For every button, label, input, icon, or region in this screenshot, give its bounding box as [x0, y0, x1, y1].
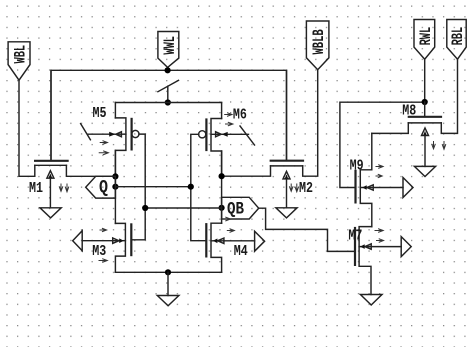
port RBL	[447, 20, 467, 60]
node QB junction	[219, 205, 225, 211]
wire WBLB to M2 source	[303, 70, 318, 177]
value annotation M7	[375, 229, 384, 242]
wire Q row	[115, 186, 190, 188]
port arrow M7 bulk	[401, 237, 411, 257]
wire RWL down	[424, 59, 426, 102]
transistor M8 (NMOS read access)	[372, 102, 442, 166]
wire VDD rail	[115, 102, 221, 104]
port QB flag	[222, 197, 259, 219]
svg-text:M3: M3	[92, 243, 106, 260]
transistor M9 (NMOS read stack)	[356, 133, 404, 226]
port arrow M4 bulk	[255, 231, 265, 251]
wire QB to M7 gate	[259, 208, 355, 251]
value annotation M6	[225, 113, 233, 126]
svg-text:M4: M4	[234, 243, 248, 260]
port arrow M9 bulk	[403, 178, 413, 198]
svg-text:QB: QB	[227, 200, 244, 220]
value annotation M2	[290, 184, 299, 192]
wire WBL to M1 source	[19, 80, 35, 176]
wire QB row	[145, 207, 221, 209]
svg-text:M6: M6	[233, 107, 247, 124]
svg-text:M8: M8	[402, 103, 416, 120]
node VDD junction	[165, 99, 171, 105]
wire M6 gate to Q/M4	[191, 134, 207, 240]
port WWL	[158, 32, 179, 68]
ground at M8 bulk	[414, 166, 435, 176]
wire QB column	[221, 151, 223, 223]
wire WWL rail	[51, 70, 287, 161]
node WWL junction	[165, 67, 171, 73]
value annotation M5	[99, 141, 108, 155]
node RWL junction	[422, 99, 428, 105]
transistor M5 (PMOS)	[81, 103, 139, 177]
svg-text:M9: M9	[350, 157, 364, 174]
node VSS junction	[165, 269, 171, 275]
node QB-M5gate junction	[142, 205, 148, 211]
value annotation M4	[222, 217, 234, 232]
node M2 drain junction	[219, 173, 225, 179]
ground at M1 bulk	[40, 208, 61, 218]
svg-text:WBLB: WBLB	[310, 29, 328, 54]
svg-text:M5: M5	[93, 105, 107, 122]
svg-text:M7: M7	[348, 228, 362, 245]
svg-text:WBL: WBL	[12, 45, 30, 64]
port WBLB	[306, 21, 329, 70]
svg-text:Q: Q	[99, 178, 108, 198]
node M1 drain junction	[112, 173, 118, 179]
wire VDD stub with slash	[158, 80, 179, 102]
port Q flag	[86, 176, 116, 198]
wire RBL down to M8	[441, 59, 457, 133]
transistor M4 (NMOS)	[206, 223, 254, 272]
svg-text:M2: M2	[299, 180, 313, 197]
value annotation M3	[99, 228, 107, 262]
svg-text:RWL: RWL	[417, 27, 435, 46]
wire M5 gate to QB/M3	[132, 134, 146, 240]
transistor M6 (PMOS)	[199, 103, 255, 177]
port arrow M3 bulk	[73, 231, 83, 251]
transistor M3 (NMOS)	[82, 223, 131, 272]
ground at VSS	[157, 272, 179, 306]
ground at M7 source	[360, 295, 382, 306]
port WBL	[8, 42, 30, 80]
wire VSS rail	[115, 271, 221, 273]
wire Q column	[114, 150, 116, 223]
port RWL	[414, 20, 435, 60]
ground at M2 bulk	[276, 208, 297, 218]
wire M9 gate to RWL	[340, 102, 425, 187]
node Q junction	[112, 184, 118, 190]
value annotation M8	[432, 142, 446, 150]
transistor M2 (NMOS access)	[222, 70, 303, 208]
node Q-M6gate junction	[188, 184, 194, 190]
svg-text:WWL: WWL	[161, 36, 179, 55]
transistor M7 (NMOS read driver)	[355, 227, 401, 295]
svg-text:RBL: RBL	[449, 27, 467, 46]
svg-text:M1: M1	[29, 180, 43, 197]
transistor M1 (NMOS access)	[35, 70, 116, 208]
value annotation M9	[376, 165, 383, 178]
value annotation M1	[59, 184, 68, 192]
